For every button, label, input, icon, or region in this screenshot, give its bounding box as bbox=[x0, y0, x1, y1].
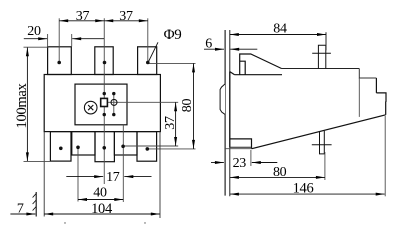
svg-text:84: 84 bbox=[273, 22, 287, 37]
label Phi-9 with leader to T3 dot bbox=[148, 42, 158, 62]
dimension 17 (arrows outside) bbox=[66, 176, 103, 178]
svg-text:80: 80 bbox=[273, 165, 287, 180]
extension from circle symbol to 37-dim top bbox=[108, 101, 179, 103]
mounting surface line below body (left view) bbox=[43, 132, 45, 217]
top terminal tab T1 bbox=[48, 47, 72, 75]
top terminal tab T2 bbox=[95, 47, 113, 75]
pedestal top surface bbox=[235, 74, 282, 76]
mounting hatch line (surface symbol) bbox=[35, 192, 37, 217]
sloped bottom edge bbox=[252, 115, 386, 149]
dimension 37 (right segment, top) bbox=[104, 20, 148, 22]
extension from dot D to 37-dim bottom bbox=[123, 145, 178, 147]
back face / extension line bbox=[229, 30, 231, 196]
bottom surface line under foot bbox=[225, 148, 252, 150]
extension line from T3 dot up bbox=[147, 18, 149, 62]
dimension 6 (arrows outside) bbox=[204, 48, 224, 50]
bottom block B bbox=[72, 132, 95, 155]
inner panel rect bbox=[75, 84, 127, 125]
mounting plane line bbox=[224, 30, 226, 196]
top-left chamfer bbox=[230, 72, 235, 75]
svg-text:23: 23 bbox=[233, 156, 247, 171]
dots around square symbol bbox=[103, 92, 106, 95]
dimension 104 (bottom overall width) bbox=[44, 213, 160, 215]
dimension 84 (top) bbox=[230, 34, 326, 36]
dimension 40 bbox=[78, 199, 123, 201]
top flat surface bbox=[282, 68, 360, 70]
side body profile bbox=[230, 54, 386, 149]
dimension 37 (left segment, top) bbox=[59, 20, 104, 22]
back face (body part) bbox=[229, 72, 231, 148]
svg-text:40: 40 bbox=[93, 186, 107, 201]
svg-text:146: 146 bbox=[293, 181, 314, 197]
body outline bbox=[44, 75, 160, 132]
bottom foot C (center) bbox=[95, 132, 114, 162]
svg-text:37: 37 bbox=[163, 116, 178, 130]
extension line foot right edge bbox=[250, 150, 252, 166]
dimension 37 (vertical, inner) bbox=[175, 102, 177, 146]
symbol: small circle (adjust dial) bbox=[111, 99, 117, 105]
upper front face bbox=[375, 78, 377, 93]
svg-text:6: 6 bbox=[205, 37, 212, 52]
svg-text:80: 80 bbox=[180, 99, 195, 113]
svg-text:100max: 100max bbox=[14, 82, 30, 128]
dimension 146 (overall depth) bbox=[230, 193, 385, 195]
bottom block D bbox=[114, 132, 137, 155]
extension line top screw to 84 dim bbox=[325, 32, 327, 50]
extension from dot E to 80-dim bottom bbox=[147, 148, 195, 150]
step down at front top bbox=[359, 69, 376, 79]
centerline below dot D bbox=[122, 125, 124, 202]
svg-text:104: 104 bbox=[91, 201, 113, 217]
terminal dots top row bbox=[57, 61, 61, 65]
dimension 7 (arrows outside) bbox=[10, 213, 35, 215]
foot bottom edge bbox=[230, 146, 252, 148]
svg-text:37: 37 bbox=[119, 9, 133, 24]
dimension 80 (vertical, right of front view) bbox=[193, 63, 195, 148]
dimension 80 (side view) bbox=[230, 176, 325, 178]
svg-text:20: 20 bbox=[27, 24, 41, 39]
centerline through T2 / square / foot C bbox=[103, 18, 105, 184]
symbol: circle with X (test button) bbox=[84, 101, 97, 114]
centerline below dot B bbox=[77, 147, 79, 201]
svg-text:Φ9: Φ9 bbox=[164, 27, 182, 43]
hatch ticks bbox=[33, 194, 37, 211]
svg-text:7: 7 bbox=[17, 202, 24, 217]
mounting foot bbox=[230, 139, 252, 149]
dimension 100max (vertical, left) bbox=[26, 47, 28, 161]
extension line front face down to 146 dim bbox=[384, 116, 386, 196]
svg-text:17: 17 bbox=[106, 170, 120, 185]
svg-text:37: 37 bbox=[76, 9, 90, 24]
bottom foot A bbox=[50, 132, 71, 162]
symbol: bold rectangle (reset button) bbox=[101, 98, 108, 106]
dimension 20 (tab width, arrows outside) bbox=[24, 38, 47, 40]
centerline through small circle bbox=[113, 94, 115, 115]
extension line bottom screw to 80 dim bbox=[324, 152, 326, 180]
DIN clip behind panel bbox=[220, 84, 225, 115]
hook (wiring hold-down) bbox=[240, 54, 282, 75]
extension line from T1 dot up bbox=[58, 18, 60, 62]
bottom foot E bbox=[137, 132, 157, 162]
extension line at right for 104 dim bbox=[159, 132, 161, 218]
terminal dots bottom row bbox=[59, 147, 63, 151]
dimension 23 (arrows outside) bbox=[211, 162, 224, 164]
top terminal screw bbox=[312, 45, 331, 68]
internal step edge line bbox=[358, 78, 360, 117]
extension from T3 dot to 80-dim top bbox=[148, 62, 196, 64]
lower front face bbox=[385, 101, 387, 115]
top terminal tab T3 bbox=[138, 47, 157, 75]
front nub bbox=[376, 93, 386, 101]
bottom terminal screw bbox=[312, 131, 332, 154]
